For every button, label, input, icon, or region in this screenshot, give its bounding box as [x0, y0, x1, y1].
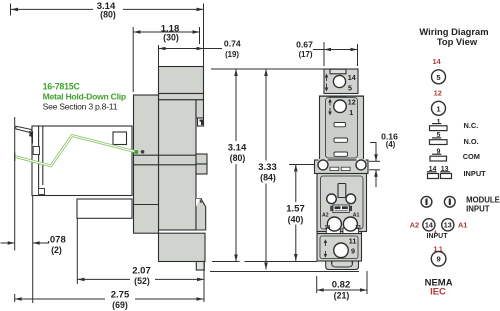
svg-text:MODULE: MODULE	[466, 196, 500, 205]
svg-text:(21): (21)	[334, 291, 350, 301]
svg-text:14: 14	[348, 73, 356, 82]
svg-text:12: 12	[434, 89, 442, 98]
svg-text:A1: A1	[458, 221, 467, 230]
svg-text:9: 9	[436, 255, 440, 264]
svg-text:(80): (80)	[230, 153, 246, 163]
svg-text:0.74: 0.74	[224, 39, 241, 49]
svg-text:N.O.: N.O.	[464, 137, 479, 146]
svg-text:COM: COM	[463, 152, 480, 161]
svg-text:13: 13	[444, 221, 452, 230]
svg-text:See Section 3 p.8-11: See Section 3 p.8-11	[43, 101, 118, 111]
svg-text:(84): (84)	[260, 173, 276, 183]
svg-text:5: 5	[348, 83, 352, 92]
svg-text:(19): (19)	[225, 50, 239, 59]
svg-text:(17): (17)	[299, 50, 313, 59]
svg-text:16-7815C: 16-7815C	[43, 81, 81, 91]
svg-text:3.33: 3.33	[258, 162, 277, 173]
svg-text:2.07: 2.07	[132, 266, 151, 277]
svg-text:1: 1	[349, 108, 353, 117]
svg-text:9: 9	[351, 247, 355, 256]
svg-text:IEC: IEC	[430, 287, 446, 298]
svg-text:1.57: 1.57	[286, 203, 305, 214]
svg-text:(30): (30)	[163, 33, 179, 43]
svg-text:INPUT: INPUT	[427, 233, 449, 240]
svg-text:0.67: 0.67	[296, 40, 313, 50]
svg-text:14: 14	[325, 225, 331, 231]
svg-text:14: 14	[425, 221, 433, 230]
svg-text:11: 11	[349, 237, 357, 246]
svg-text:2.75: 2.75	[111, 290, 130, 301]
svg-text:3.14: 3.14	[228, 143, 247, 154]
svg-text:INPUT: INPUT	[464, 169, 487, 178]
svg-text:1: 1	[437, 119, 441, 126]
svg-text:(2): (2)	[51, 245, 62, 255]
svg-text:Metal Hold-Down Clip: Metal Hold-Down Clip	[43, 91, 126, 101]
svg-text:(52): (52)	[134, 276, 150, 286]
svg-text:13: 13	[355, 225, 361, 231]
svg-text:A2: A2	[322, 212, 329, 218]
svg-text:(40): (40)	[288, 214, 304, 224]
svg-text:A2: A2	[410, 221, 419, 230]
svg-text:12: 12	[348, 98, 356, 107]
svg-text:14: 14	[432, 57, 441, 66]
svg-text:N.C.: N.C.	[464, 121, 479, 130]
svg-text:(80): (80)	[100, 10, 116, 20]
svg-text:(69): (69)	[112, 300, 128, 310]
svg-text:A1: A1	[353, 212, 360, 218]
svg-text:INPUT: INPUT	[466, 205, 490, 214]
svg-text:(4): (4)	[386, 140, 396, 149]
svg-text:Top View: Top View	[437, 36, 478, 47]
svg-text:0.82: 0.82	[332, 280, 351, 291]
